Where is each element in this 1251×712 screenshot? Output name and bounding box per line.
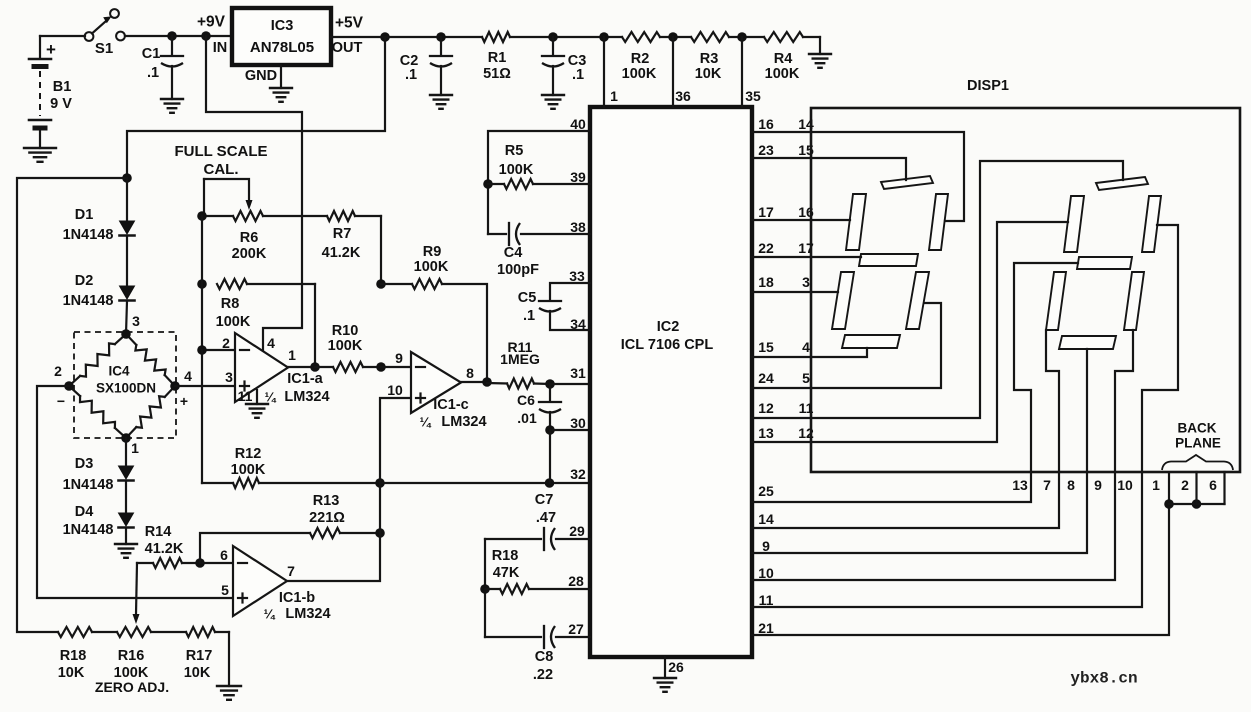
wire IC2 pin 1: [599, 32, 618, 107]
diode D1 1N4148: [63, 178, 135, 243]
regulator IC3 AN78L05: [213, 8, 363, 65]
svg-text:24: 24: [758, 370, 774, 386]
wire bridge node 2 to IC1-b pin 5: [37, 386, 233, 598]
svg-text:DISP1: DISP1: [967, 78, 1009, 94]
wire IC2 pin11 to digit2 seg b: [752, 225, 1178, 607]
svg-text:35: 35: [745, 88, 761, 104]
svg-text:22: 22: [758, 240, 774, 256]
svg-text:28: 28: [568, 573, 584, 589]
ground (IC2 pin 26): [654, 678, 676, 692]
svg-text:31: 31: [570, 365, 586, 381]
wire IC2 pin21 to backplane: [752, 473, 1169, 635]
svg-text:−: −: [57, 393, 65, 409]
svg-text:3: 3: [225, 369, 233, 385]
wire D2 to bridge node 3: [126, 301, 140, 334]
svg-text:R2: R2: [631, 51, 650, 67]
wire IC2 pin10 to digit2 seg c: [752, 330, 1133, 580]
resistor R8 100K: [216, 279, 315, 367]
wire IC2 pin 36: [668, 32, 691, 107]
svg-text:23: 23: [758, 142, 774, 158]
svg-text:4: 4: [802, 339, 810, 355]
svg-text:2: 2: [222, 335, 230, 351]
wire IC1-c pin 10: [380, 382, 411, 483]
svg-text:51Ω: 51Ω: [483, 66, 511, 82]
svg-text:R5: R5: [505, 143, 524, 159]
svg-text:32: 32: [570, 466, 586, 482]
svg-text:16: 16: [758, 116, 774, 132]
svg-text:34: 34: [570, 316, 586, 332]
resistor R10 100K: [315, 323, 381, 372]
svg-text:1N4148: 1N4148: [63, 522, 114, 538]
svg-text:2: 2: [54, 363, 62, 379]
ground (R17): [217, 686, 241, 700]
pressure sensor bridge IC4 SX100DN: [54, 329, 192, 456]
ground (IC1-a pin 11): [246, 404, 268, 418]
resistor R11 1MEG: [487, 339, 550, 389]
resistor R7 41.2K: [322, 211, 381, 284]
svg-text:100pF: 100pF: [497, 262, 539, 278]
diode D2 1N4148: [63, 236, 135, 309]
svg-text:.1: .1: [405, 67, 417, 83]
svg-text:C6: C6: [517, 392, 535, 408]
node +5V: [335, 14, 390, 41]
svg-text:C7: C7: [535, 492, 554, 508]
wire bridge node 4 to IC1-a pin 3: [175, 385, 235, 387]
svg-text:1MEG: 1MEG: [500, 351, 540, 367]
svg-text:12: 12: [758, 400, 774, 416]
svg-text:18: 18: [758, 274, 774, 290]
svg-text:100K: 100K: [231, 462, 266, 478]
svg-text:1: 1: [131, 440, 139, 456]
capacitor C4 100pF: [488, 219, 590, 278]
svg-text:100K: 100K: [622, 66, 657, 82]
svg-text:21: 21: [758, 620, 774, 636]
svg-text:C5: C5: [518, 290, 537, 306]
wire IC2 pin 26: [665, 657, 684, 678]
svg-text:IC1-c: IC1-c: [433, 397, 468, 413]
svg-text:R1: R1: [488, 50, 507, 66]
svg-text:10: 10: [1117, 477, 1133, 493]
wire IC2 pin24 to digit1 seg c: [752, 303, 941, 388]
svg-text:4: 4: [267, 335, 275, 351]
DISP1 digit2 segment c: [1124, 272, 1144, 330]
svg-text:3: 3: [802, 274, 810, 290]
svg-text:D3: D3: [75, 456, 94, 472]
svg-text:11: 11: [759, 592, 774, 608]
ground (C2): [430, 95, 452, 109]
svg-text:200K: 200K: [232, 246, 267, 262]
DISP1 digit2 segment g: [1077, 257, 1132, 269]
svg-text:47K: 47K: [493, 565, 520, 581]
svg-text:D2: D2: [75, 273, 94, 289]
svg-text:.1: .1: [147, 65, 159, 81]
junction common node at IC1-c pin 10: [375, 478, 385, 488]
DISP1 digit2 segment a: [1096, 177, 1148, 190]
svg-text:AN78L05: AN78L05: [250, 39, 314, 56]
svg-text:7: 7: [287, 563, 295, 579]
svg-text:BACK: BACK: [1178, 421, 1217, 436]
svg-text:5: 5: [802, 370, 810, 386]
label BACK PLANE with brace: [1162, 421, 1233, 470]
svg-text:1N4148: 1N4148: [63, 477, 114, 493]
svg-text:100K: 100K: [216, 314, 251, 330]
wire +5V to D1 reference chain: [127, 37, 385, 178]
svg-text:41.2K: 41.2K: [145, 541, 184, 557]
svg-text:LM324: LM324: [285, 606, 330, 622]
svg-text:GND: GND: [245, 68, 277, 84]
svg-text:11: 11: [238, 388, 253, 404]
svg-text:17: 17: [758, 204, 774, 220]
junction C6 / IC2 pin 30: [545, 415, 590, 483]
op-amp IC1-c 1/4 LM324: [411, 352, 487, 430]
DISP1 digit1 segment f: [846, 194, 866, 250]
wire battery to switch S1: [40, 35, 85, 37]
DISP1 digit2 segment b: [1142, 196, 1161, 252]
capacitor C5 .1: [518, 268, 590, 332]
svg-text:ICL 7106 CPL: ICL 7106 CPL: [621, 337, 714, 353]
svg-text:1: 1: [288, 347, 296, 363]
svg-text:C8: C8: [535, 649, 554, 665]
svg-text:LM324: LM324: [284, 389, 329, 405]
svg-text:29: 29: [569, 523, 585, 539]
wire IC2 pin 35: [737, 32, 761, 107]
backplane tie pins 1 2 6: [1164, 472, 1224, 509]
IC2 right pin numbers: [758, 116, 814, 636]
svg-text:R13: R13: [313, 493, 340, 509]
display DISP1 outline: [811, 78, 1240, 472]
svg-text:IC2: IC2: [657, 319, 680, 335]
wire left rail to zero-adjust divider: [17, 178, 127, 632]
resistor R18 10K: [58, 627, 92, 681]
svg-text:.1: .1: [523, 308, 535, 324]
svg-text:R6: R6: [240, 230, 259, 246]
DISP1 digit1 segment b: [929, 194, 948, 250]
junction pin32/C6: [545, 478, 555, 488]
op-amp IC1-b 1/4 LM324: [221, 546, 330, 622]
ground (rail end after R4): [809, 54, 831, 68]
svg-text:25: 25: [758, 483, 774, 499]
wire IC2 pin13 to digit2 seg f: [752, 222, 1068, 442]
svg-text:7: 7: [1043, 477, 1051, 493]
svg-text:¼: ¼: [420, 415, 432, 430]
svg-text:9: 9: [762, 538, 770, 554]
svg-text:27: 27: [568, 621, 584, 637]
svg-text:1N4148: 1N4148: [63, 227, 114, 243]
svg-text:10: 10: [387, 382, 403, 398]
ground (battery B1): [24, 148, 56, 162]
resistor R1 51ohm: [482, 32, 511, 82]
junction R7/R9 node: [376, 279, 386, 289]
label FULL SCALE CAL: [174, 143, 267, 178]
svg-text:R10: R10: [332, 323, 359, 339]
svg-text:30: 30: [570, 415, 586, 431]
wire IC1-a output: [288, 362, 320, 372]
svg-text:.1: .1: [572, 67, 584, 83]
DISP1 bottom pin numbers: [1012, 477, 1217, 493]
svg-text:D4: D4: [75, 504, 94, 520]
svg-text:+: +: [180, 393, 188, 409]
capacitor C8 .22: [485, 621, 590, 683]
resistor R2 100K: [622, 32, 660, 82]
svg-text:R8: R8: [221, 296, 240, 312]
DISP1 digit1 segment c: [906, 272, 929, 329]
svg-text:.22: .22: [533, 667, 553, 683]
resistor R13 221ohm: [200, 493, 380, 563]
switch S1: [85, 9, 125, 57]
svg-text:R3: R3: [700, 51, 719, 67]
svg-text:IC1-b: IC1-b: [279, 590, 315, 606]
svg-text:¼: ¼: [264, 607, 276, 622]
svg-text:41.2K: 41.2K: [322, 245, 361, 261]
svg-text:100K: 100K: [414, 259, 449, 275]
svg-text:6: 6: [220, 547, 228, 563]
svg-text:8: 8: [466, 365, 474, 381]
svg-text:8: 8: [1067, 477, 1075, 493]
junction C1 node: [167, 31, 177, 41]
resistor R5 100K: [483, 143, 590, 189]
svg-text:.47: .47: [536, 510, 556, 526]
svg-text:.01: .01: [517, 410, 537, 426]
wire common to IC2 pin 32: [380, 466, 590, 483]
ground (C1): [161, 99, 183, 113]
wire IC2 pin14 to digit2 seg e: [752, 330, 1059, 528]
svg-text:13: 13: [1012, 477, 1028, 493]
svg-text:R7: R7: [333, 226, 352, 242]
svg-text:100K: 100K: [499, 162, 534, 178]
resistor R17 10K: [184, 627, 229, 686]
resistor R12 100K: [202, 350, 380, 488]
svg-text:+9V: +9V: [197, 13, 226, 30]
DISP1 digit2 segment d: [1059, 336, 1116, 349]
svg-text:B1: B1: [53, 79, 72, 95]
svg-text:13: 13: [758, 425, 774, 441]
svg-text:R17: R17: [186, 648, 213, 664]
ground (IC3): [270, 88, 292, 102]
wire IC2 pin16 to digit1 seg b: [752, 132, 964, 221]
svg-text:¼: ¼: [265, 390, 277, 405]
svg-text:PLANE: PLANE: [1175, 436, 1221, 451]
svg-text:10K: 10K: [58, 665, 85, 681]
svg-text:IC1-a: IC1-a: [287, 371, 323, 387]
svg-text:R14: R14: [145, 524, 172, 540]
wire IC2 pin18 to digit1 seg e: [752, 291, 838, 293]
svg-text:10K: 10K: [184, 665, 211, 681]
wire IC2 pin12 to digit2 seg a: [752, 161, 1123, 418]
svg-text:CAL.: CAL.: [204, 161, 239, 178]
DISP1 digit1 segment a: [881, 176, 933, 189]
svg-text:36: 36: [675, 88, 691, 104]
diode D4 1N4148: [63, 481, 134, 538]
potentiometer R6 200K: [202, 179, 327, 262]
svg-text:6: 6: [1209, 477, 1217, 493]
svg-text:IN: IN: [213, 40, 228, 56]
svg-text:1N4148: 1N4148: [63, 293, 114, 309]
diode D3 1N4148: [63, 438, 134, 493]
node +9V: [197, 13, 226, 40]
capacitor C1 .1: [142, 36, 183, 99]
resistor R9 100K: [381, 244, 487, 382]
svg-text:39: 39: [570, 169, 586, 185]
svg-text:4: 4: [184, 368, 192, 384]
svg-text:IC3: IC3: [271, 18, 294, 34]
junction R6 left: [197, 211, 207, 221]
svg-text:9 V: 9 V: [50, 96, 72, 112]
DISP1 digit2 segment e: [1046, 272, 1066, 330]
op-amp IC1-a 1/4 LM324: [222, 333, 329, 405]
svg-text:LM324: LM324: [441, 414, 486, 430]
capacitor C3 .1: [542, 32, 586, 95]
svg-text:FULL SCALE: FULL SCALE: [174, 143, 267, 160]
svg-text:1: 1: [610, 88, 618, 104]
DISP1 digit1 segment d: [842, 335, 900, 348]
svg-text:R12: R12: [235, 446, 262, 462]
ground (C3): [542, 95, 564, 109]
svg-text:3: 3: [132, 313, 140, 329]
svg-text:R18: R18: [60, 648, 87, 664]
wire IC2 pin25 to digit2 seg g: [752, 263, 1078, 502]
ADC IC2 ICL 7106 CPL: [590, 107, 752, 657]
svg-text:38: 38: [570, 219, 586, 235]
wire IC1-b output to common: [287, 483, 380, 581]
svg-text:26: 26: [668, 659, 684, 675]
svg-text:9: 9: [395, 350, 403, 366]
DISP1 digit1 segment e: [832, 272, 854, 329]
svg-text:C4: C4: [504, 245, 523, 261]
svg-text:D1: D1: [75, 207, 94, 223]
svg-text:33: 33: [569, 268, 585, 284]
wire inverting input node IC1-a: [197, 216, 235, 355]
wire IC2 pin9 to digit2 seg d: [752, 349, 1087, 553]
svg-text:R18: R18: [492, 548, 519, 564]
junction R8 left: [197, 279, 207, 289]
wire +9V to IC1 pin 4: [206, 36, 302, 352]
svg-text:OUT: OUT: [332, 40, 363, 56]
svg-text:S1: S1: [95, 40, 113, 57]
capacitor C2 .1: [400, 32, 452, 95]
svg-text:R4: R4: [774, 51, 793, 67]
svg-text:1: 1: [1152, 477, 1160, 493]
svg-text:R16: R16: [118, 648, 145, 664]
svg-text:ybx8.cn: ybx8.cn: [1070, 670, 1137, 688]
svg-text:15: 15: [758, 339, 774, 355]
capacitor C6 .01: [517, 384, 561, 430]
svg-text:+5V: +5V: [335, 14, 364, 31]
capacitor C7 .47: [485, 492, 590, 550]
wire IC2 pin22 to digit1 seg g: [752, 256, 861, 258]
svg-text:10: 10: [758, 565, 774, 581]
junction reference node: [122, 173, 132, 183]
wire IC2 pin17 to digit1 seg f: [752, 219, 850, 221]
junction R13 right: [375, 528, 385, 538]
wire IC3 GND pin: [245, 65, 281, 88]
svg-text:R9: R9: [423, 244, 442, 260]
ground (D4): [115, 528, 137, 558]
svg-text:221Ω: 221Ω: [309, 510, 345, 526]
svg-text:2: 2: [1181, 477, 1189, 493]
junction R10 right / IC1-c pin 9: [376, 350, 411, 372]
svg-text:100K: 100K: [328, 338, 363, 354]
potentiometer R16 100K ZERO ADJ: [92, 627, 186, 695]
svg-text:100K: 100K: [765, 66, 800, 82]
svg-text:9: 9: [1094, 477, 1102, 493]
resistor R3 10K: [691, 32, 729, 82]
svg-text:SX100DN: SX100DN: [96, 381, 156, 396]
resistor R18 47K: [480, 539, 590, 637]
wire IC2 pin23 to digit1 seg a: [752, 158, 906, 180]
svg-text:10K: 10K: [695, 66, 722, 82]
svg-text:ZERO ADJ.: ZERO ADJ.: [95, 679, 169, 695]
svg-text:IC4: IC4: [108, 364, 130, 379]
wire IC2 pin15 to digit1 seg d: [752, 348, 867, 357]
svg-text:5: 5: [221, 582, 229, 598]
DISP1 digit2 segment f: [1064, 196, 1084, 252]
wire S1 to +9V node / IC3 IN: [125, 35, 232, 37]
resistor R14 41.2K: [133, 524, 201, 624]
junction R11/C6 node: [545, 365, 590, 389]
wire IC2 pin 40: [488, 116, 590, 234]
svg-text:40: 40: [570, 116, 586, 132]
svg-text:+: +: [46, 40, 56, 59]
watermark ybx8.cn: [1070, 670, 1137, 688]
resistor R4 100K: [764, 32, 803, 82]
svg-text:14: 14: [758, 511, 774, 527]
wire IC1-c output node: [461, 377, 492, 387]
junction IC1-b pin 6 node: [195, 547, 233, 568]
wire +5V rail: [331, 37, 820, 54]
svg-text:C1: C1: [142, 46, 161, 62]
DISP1 digit1 segment g: [859, 254, 918, 266]
battery B1 9V: [29, 36, 72, 148]
